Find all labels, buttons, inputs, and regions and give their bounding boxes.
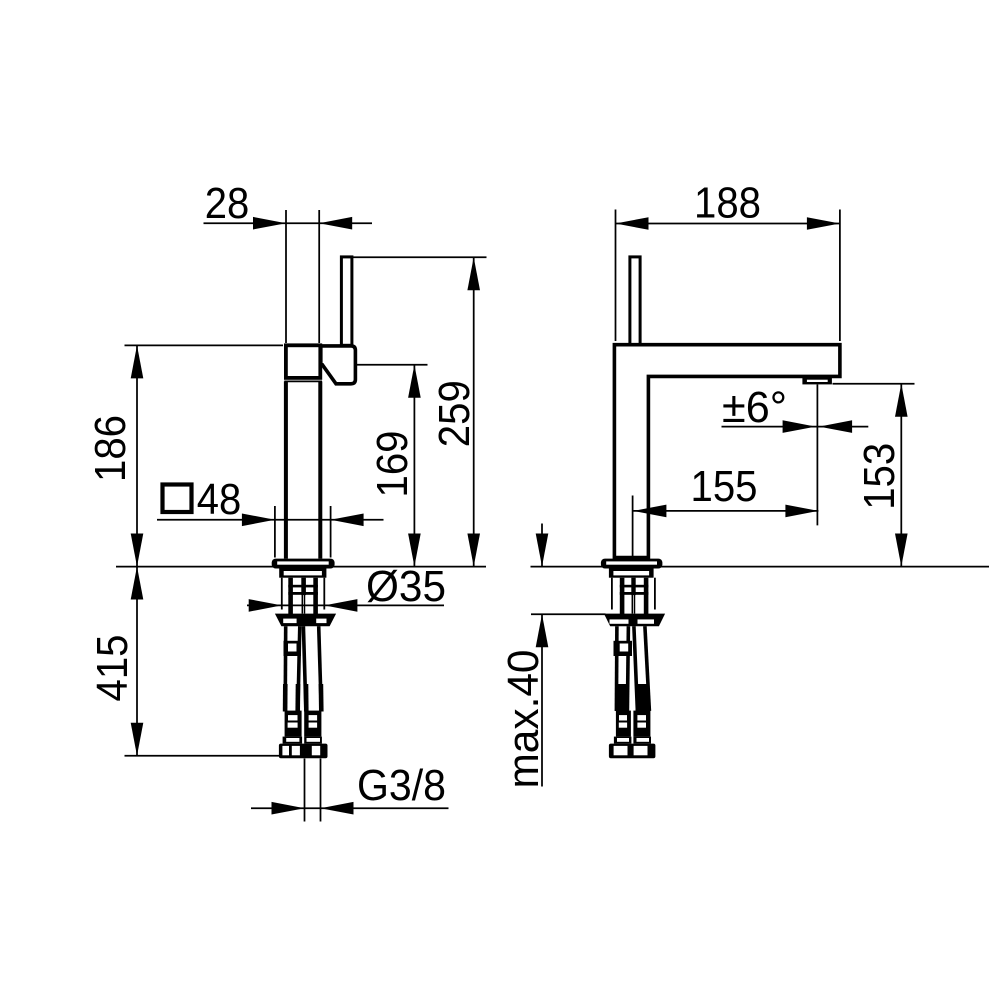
svg-text:169: 169 <box>368 431 417 498</box>
front handle lever bar <box>341 257 352 345</box>
svg-text:±6°: ±6° <box>722 383 787 432</box>
side skirt <box>604 614 665 627</box>
DIMENSION max 40 <box>531 524 606 787</box>
front right hose <box>303 626 306 711</box>
front tube inner lines <box>301 595 303 614</box>
countertop line left segment <box>116 566 486 568</box>
side base tier 2 <box>609 569 654 578</box>
front handle base block <box>321 346 356 384</box>
svg-text:259: 259 <box>430 380 479 447</box>
side left hose <box>615 626 619 711</box>
front skirt <box>275 614 336 627</box>
front column top seam line <box>284 380 322 382</box>
front column left edge <box>284 381 288 558</box>
DIMENSION 28 <box>204 210 373 343</box>
DIMENSION 186 <box>125 345 284 566</box>
side handle lever bar <box>630 257 640 345</box>
DIMENSION diameter 35 <box>247 604 444 606</box>
front base flange <box>272 559 335 569</box>
front right crimp <box>304 711 321 737</box>
front shank outer shell lines <box>281 578 283 610</box>
side body L-shape slab and column <box>614 345 840 558</box>
side left crimp <box>616 711 631 737</box>
side crimp tier <box>614 737 632 744</box>
front column right edge <box>318 381 322 558</box>
svg-text:max.40: max.40 <box>499 650 548 789</box>
square symbol for 48 <box>163 485 192 513</box>
side aerator <box>802 378 832 385</box>
svg-text:155: 155 <box>691 462 758 511</box>
side threaded tube edges <box>620 578 625 623</box>
DIMENSION 153 <box>833 384 915 567</box>
svg-text:153: 153 <box>855 443 904 510</box>
side hose lower dark segments <box>617 684 629 711</box>
side base flange <box>601 559 663 569</box>
front hose lower thick walls <box>283 684 288 712</box>
DIMENSION 155 <box>633 496 819 558</box>
svg-text:G3/8: G3/8 <box>357 761 446 810</box>
DIMENSION 259 <box>353 257 487 566</box>
front thread bands <box>288 585 318 588</box>
side thread bands <box>620 585 649 588</box>
countertop line right segment <box>531 566 990 568</box>
svg-text:415: 415 <box>88 635 137 702</box>
side right hose <box>634 626 638 711</box>
DIMENSION 415 <box>125 567 280 756</box>
DIMENSION plus minus 6 degrees with spout axis <box>722 385 869 526</box>
side bottom connector block <box>609 744 656 759</box>
svg-text:188: 188 <box>694 179 761 228</box>
DIMENSION 169 <box>357 365 428 567</box>
side hose fitting block <box>614 641 633 656</box>
front crimp tier <box>283 737 303 744</box>
DIMENSION 48 <box>157 506 384 558</box>
front threaded tube edges <box>288 578 293 623</box>
front base tier 2 <box>279 569 326 578</box>
front bottom connector block <box>279 744 328 759</box>
front body upper housing <box>286 345 320 378</box>
DIMENSION G3/8 <box>251 759 449 822</box>
side tube inner lines <box>631 595 633 614</box>
front left hose <box>283 626 287 711</box>
front left crimp <box>285 711 302 737</box>
DIMENSION 188 <box>616 210 840 342</box>
front hose fitting block <box>284 641 302 656</box>
side shank outer shell lines <box>611 578 613 610</box>
svg-text:186: 186 <box>86 415 135 482</box>
svg-text:48: 48 <box>197 475 242 524</box>
side right crimp <box>633 711 650 737</box>
svg-text:Ø35: Ø35 <box>366 562 446 611</box>
svg-text:28: 28 <box>205 179 250 228</box>
